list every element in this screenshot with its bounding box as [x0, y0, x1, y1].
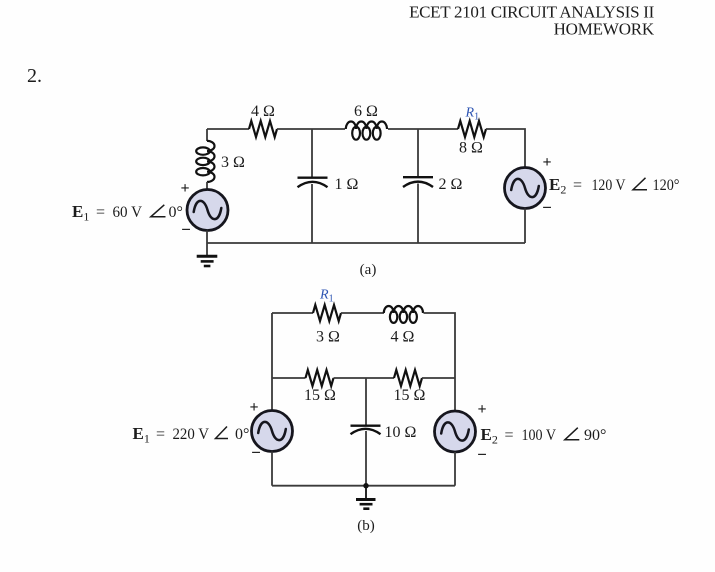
wire top-left segment (a) [207, 128, 249, 130]
svg-text:−: − [542, 198, 552, 217]
ground (a) [197, 256, 218, 266]
svg-text:=: = [573, 177, 582, 194]
svg-text:6 Ω: 6 Ω [354, 103, 378, 120]
wire below E2 (b) [454, 452, 456, 486]
source E2 (b) [435, 411, 476, 452]
capacitor 10ohm (b) [351, 426, 381, 435]
svg-text:2 Ω: 2 Ω [439, 176, 463, 193]
angle symbol (a-E2) [633, 178, 647, 190]
wire bottom (a) [207, 242, 525, 244]
wire middle-left (b) [272, 377, 306, 379]
wire left vertical into E1 (b) [271, 378, 273, 411]
resistor R1 3ohm (b) [313, 305, 341, 321]
wire branch-1 lower (a) [311, 184, 313, 243]
svg-text:R1: R1 [465, 106, 480, 123]
svg-text:(b): (b) [357, 518, 375, 534]
svg-text:−: − [181, 220, 191, 239]
svg-text:+: + [477, 401, 486, 418]
inductor 6ohm [346, 122, 387, 140]
svg-text:1 Ω: 1 Ω [335, 176, 359, 193]
svg-text:(a): (a) [360, 262, 377, 278]
wire center branch upper (b) [365, 378, 367, 425]
wire top middle-2 (a) [388, 128, 458, 130]
wire middle-right (b) [422, 377, 455, 379]
wire bottom (b) [272, 485, 455, 487]
svg-text:E1: E1 [72, 202, 89, 224]
svg-text:120°: 120° [653, 177, 680, 194]
svg-text:120 V: 120 V [592, 177, 626, 194]
svg-text:=: = [505, 427, 514, 444]
ground (b) [356, 486, 376, 509]
svg-text:3 Ω: 3 Ω [316, 329, 340, 346]
angle symbol (a-E1) [151, 205, 166, 217]
svg-text:0°: 0° [235, 426, 249, 443]
svg-text:+: + [180, 180, 189, 197]
svg-text:E2: E2 [481, 425, 498, 447]
svg-text:4 Ω: 4 Ω [391, 329, 415, 346]
resistor 4ohm [249, 121, 277, 137]
wire branch-2 lower (a) [417, 184, 419, 244]
svg-text:HOMEWORK: HOMEWORK [554, 20, 655, 39]
wire top-right segment (b) [424, 313, 456, 378]
svg-text:E1: E1 [133, 424, 150, 446]
inductor 3ohm [196, 141, 214, 182]
svg-text:−: − [477, 445, 487, 464]
svg-text:+: + [542, 154, 551, 171]
capacitor 2ohm [403, 177, 433, 187]
resistor 15ohm right (b) [394, 370, 422, 386]
svg-text:E2: E2 [549, 175, 566, 197]
wire branch-1 upper (a) [311, 129, 313, 177]
resistor R1 8ohm [458, 121, 486, 137]
wire middle center (b) [334, 377, 395, 379]
svg-text:15 Ω: 15 Ω [304, 387, 336, 404]
wire branch-2 upper (a) [417, 129, 419, 177]
wire below E1 (b) [271, 452, 273, 486]
wire left vertical upper (a) [206, 129, 208, 141]
resistor 15ohm left (b) [306, 370, 334, 386]
svg-text:−: − [251, 443, 261, 462]
svg-text:R1: R1 [319, 288, 334, 305]
svg-text:60 V: 60 V [113, 204, 143, 221]
wire below source E1 to bottom (a) [206, 231, 208, 256]
angle symbol (b-E1) [216, 427, 229, 439]
svg-text:100 V: 100 V [522, 427, 557, 444]
svg-text:8 Ω: 8 Ω [459, 140, 483, 157]
svg-text:15 Ω: 15 Ω [394, 387, 426, 404]
svg-text:=: = [96, 204, 105, 221]
angle symbol (b-E2) [565, 428, 580, 440]
svg-text:220 V: 220 V [173, 426, 210, 443]
wire top middle (b) [341, 312, 384, 314]
wire top-right segment (a) [486, 129, 525, 168]
inductor 4ohm (b) [384, 306, 423, 323]
wire center branch lower (b) [365, 431, 367, 486]
capacitor 1ohm [298, 178, 328, 188]
wire below source E2 (a) [524, 209, 526, 244]
wire right vertical into E2 (b) [454, 378, 456, 411]
svg-text:0°: 0° [169, 204, 183, 221]
junction dot (b) [363, 483, 368, 488]
svg-text:=: = [156, 426, 165, 443]
wire top-left segment (b) [272, 313, 313, 378]
wire left into source (a) [206, 182, 208, 190]
svg-text:+: + [249, 399, 258, 416]
wire top middle-1 (a) [277, 128, 345, 130]
svg-text:90°: 90° [584, 427, 606, 444]
source E1 (a) [187, 190, 228, 231]
svg-text:2.: 2. [27, 65, 42, 87]
svg-text:10 Ω: 10 Ω [385, 424, 417, 441]
svg-text:3 Ω: 3 Ω [221, 154, 245, 171]
source E2 (a) [505, 168, 546, 209]
source E1 (b) [252, 411, 293, 452]
svg-text:4 Ω: 4 Ω [251, 103, 275, 120]
